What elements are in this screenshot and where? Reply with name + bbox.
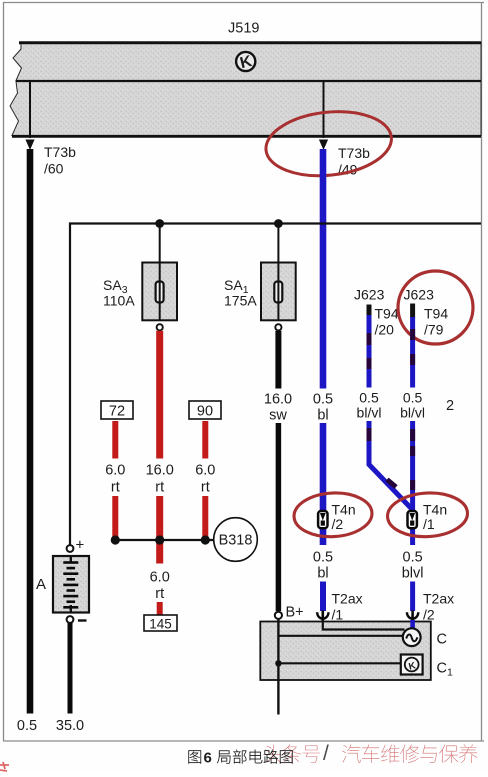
svg-text:2: 2 (446, 398, 454, 414)
junction dot 90 (201, 535, 210, 544)
label T94/79 (424, 306, 448, 338)
wire 0.5 bl/vl first upper (367, 315, 372, 388)
label 16.0 sw (264, 392, 292, 424)
wire B+ down through generator (277, 619, 279, 715)
highlight ellipse around T73b/49 (263, 106, 395, 182)
wire B+ branch to C inside box (278, 635, 403, 637)
pin T94/79 black tip (410, 304, 415, 319)
connector T4n/2 (318, 511, 327, 528)
wire 35.0 thick black left (27, 149, 34, 714)
bus bar J519 upper section (13, 42, 481, 81)
terminal circle battery plus (67, 545, 74, 552)
svg-text:rt: rt (201, 480, 210, 496)
label plus terminal (76, 537, 85, 554)
node B318 (214, 518, 258, 562)
label minus terminal (78, 619, 87, 621)
label 16.0 rt (146, 463, 174, 496)
label 35.0 bottom left (56, 718, 84, 734)
junction SA3 on rail (155, 219, 164, 228)
svg-text:bl: bl (317, 408, 328, 424)
wire rail to fuse SA3 (159, 224, 161, 263)
connector T4n/1 (408, 511, 417, 528)
svg-text:/1: /1 (423, 516, 435, 532)
svg-text:sw: sw (269, 408, 287, 424)
svg-text:T73b: T73b (338, 145, 370, 161)
label T73b/49 (338, 145, 370, 178)
wire 16.0 rt lower (156, 496, 163, 564)
horizontal rail wire (70, 224, 481, 546)
svg-text:bl/vl: bl/vl (357, 405, 382, 421)
label T73b/60 (44, 144, 76, 177)
wire 6.0 rt stub to 145 (157, 602, 163, 616)
svg-text:rt: rt (111, 480, 120, 496)
label 6.0 rt (145) (150, 570, 170, 603)
wire 0.5 bl middle segment (320, 423, 327, 545)
svg-text:0.5: 0.5 (313, 550, 333, 566)
label T4n/1 (423, 502, 447, 533)
svg-text:0.5: 0.5 (403, 550, 423, 566)
connector T2ax/1 (317, 611, 328, 623)
svg-text:6: 6 (204, 750, 212, 767)
wire 16.0 rt upper (156, 331, 163, 459)
node box 145 (144, 615, 177, 632)
wire rail to fuse SA1 (277, 224, 279, 263)
svg-text:/2: /2 (332, 516, 344, 532)
label 6.0 rt (72) (105, 463, 125, 496)
svg-text:6.0: 6.0 (150, 570, 170, 586)
node box 72 (101, 401, 133, 420)
label J519 (228, 21, 259, 37)
label T2ax/1 (332, 591, 363, 623)
watermark 头条号 / 汽车维修与保养 (263, 742, 477, 765)
wire 6.0 rt from 90 lower (202, 496, 208, 540)
wire 6.0 rt from 72 upper (112, 421, 118, 459)
wire 0.5 blvl vertical through T4n/1 (410, 421, 415, 545)
label C (437, 632, 447, 648)
svg-text:J519: J519 (228, 21, 259, 37)
svg-text:T94: T94 (375, 306, 399, 322)
label 6.0 rt (90) (195, 463, 215, 496)
svg-text:/79: /79 (424, 322, 444, 338)
svg-text:J623: J623 (354, 287, 385, 303)
label T4n/2 (332, 502, 356, 533)
svg-text:bl/vl: bl/vl (400, 405, 425, 421)
svg-text:90: 90 (197, 404, 213, 420)
svg-text:A: A (36, 576, 46, 593)
svg-text:T94: T94 (424, 306, 448, 322)
terminal symbol K inside J519 (236, 52, 255, 72)
fuse SA1 175A (261, 262, 296, 320)
svg-text:6.0: 6.0 (195, 463, 215, 479)
svg-text:T73b: T73b (44, 144, 76, 160)
caption 图6 局部电路图 (188, 750, 292, 767)
terminal circle under SA3 (157, 324, 163, 330)
svg-text:T2ax: T2ax (423, 591, 454, 607)
svg-text:blvl: blvl (402, 566, 424, 582)
label C1 (437, 661, 453, 679)
junction dot 72 (111, 535, 120, 544)
wire 0.5 bl to T2ax/1 (320, 582, 326, 612)
arrow T73b/49 (319, 140, 328, 151)
wire 6.0 rt from 72 lower (112, 496, 118, 540)
label SA3 110A (103, 277, 135, 309)
svg-text:16.0: 16.0 (146, 463, 174, 479)
label B+ (286, 605, 304, 621)
terminal circle under SA1 (275, 324, 281, 330)
regulator symbol C1 (401, 655, 423, 675)
battery A (53, 556, 89, 613)
label J623 pin T94/20 (354, 287, 385, 303)
arrow T73b/60 (25, 140, 34, 151)
watermark fragment bottom left corner (0, 762, 9, 771)
wire from bus to T73b/49 (323, 81, 325, 138)
wire junction bus B318 (115, 539, 214, 541)
svg-text:/: / (323, 742, 329, 765)
svg-text:/1: /1 (332, 607, 344, 623)
svg-text:B+: B+ (286, 605, 304, 621)
generator C box (260, 622, 431, 681)
wire 0.5 blvl to T2ax/2 (410, 582, 415, 612)
svg-text:bl: bl (317, 566, 328, 582)
svg-text:16.0: 16.0 (264, 392, 292, 408)
label T94/20 (375, 306, 399, 338)
svg-text:0.5: 0.5 (313, 392, 333, 408)
wire B+ branch to C1 (278, 662, 400, 664)
connector T2ax/2 (407, 611, 418, 623)
svg-text:35.0: 35.0 (56, 718, 84, 734)
label 0.5 blvl lower (402, 550, 424, 582)
wire 0.5 bl/vl second upper (410, 317, 415, 388)
svg-text:175A: 175A (224, 293, 257, 309)
svg-text:rt: rt (155, 480, 164, 496)
label 0.5 bl upper (313, 392, 333, 424)
junction SA1 on rail (274, 219, 283, 228)
wire from bus to T73b/60 (29, 81, 31, 138)
svg-text:+: + (76, 537, 85, 554)
svg-text:0.5: 0.5 (17, 718, 37, 734)
junction dot 16.0 (155, 535, 164, 544)
svg-text:/60: /60 (44, 161, 64, 177)
label 0.5 bl lower (313, 550, 333, 582)
label 0.5 bl/vl second (400, 390, 425, 421)
label 0.5 bottom left (17, 718, 37, 734)
svg-text:T2ax: T2ax (332, 591, 363, 607)
fuse SA3 110A (142, 262, 177, 320)
svg-text:B318: B318 (219, 533, 253, 549)
highlight ellipse around T4n/1 (386, 491, 468, 539)
alternator symbol C (403, 628, 421, 646)
wire 0.5 bl upper segment (320, 149, 327, 389)
svg-text:/2: /2 (423, 607, 435, 623)
junction dot B+ branch C1 (275, 660, 281, 666)
svg-text:6.0: 6.0 (105, 463, 125, 479)
node box 90 (189, 401, 221, 420)
label J623 second (404, 287, 435, 303)
bus bar J519 lower section (10, 81, 481, 136)
svg-text:C: C (437, 632, 447, 648)
svg-text:rt: rt (155, 586, 164, 602)
label 0.5 bl/vl first (357, 390, 382, 421)
svg-text:/20: /20 (375, 322, 395, 338)
svg-text:145: 145 (149, 617, 172, 632)
pin T94/20 black tip (367, 305, 372, 317)
svg-text:110A: 110A (103, 293, 135, 309)
wire 6.0 rt from 90 upper (202, 421, 208, 459)
svg-text:0.5: 0.5 (359, 390, 379, 406)
highlight ellipse around T4n/2 (293, 491, 373, 539)
highlight circle around J623 (398, 271, 473, 344)
label A (36, 576, 46, 593)
wire 16.0 sw upper (275, 331, 281, 389)
wire 0.5 battery minus down (68, 623, 73, 714)
label 2 (446, 398, 454, 414)
wire T2ax/2 to C top (410, 620, 415, 629)
label SA1 175A (224, 277, 257, 309)
wire T2ax/1 to C inside box (323, 620, 405, 630)
svg-text:72: 72 (109, 404, 125, 420)
label T2ax/2 (423, 591, 454, 623)
wire 16.0 sw lower (276, 423, 282, 611)
terminal circle battery minus (67, 616, 74, 623)
svg-text:0.5: 0.5 (403, 390, 423, 406)
wire bl/vl diagonal to T4n/1 (369, 421, 412, 509)
terminal circle B+ (275, 612, 282, 619)
svg-text:J623: J623 (404, 287, 435, 303)
